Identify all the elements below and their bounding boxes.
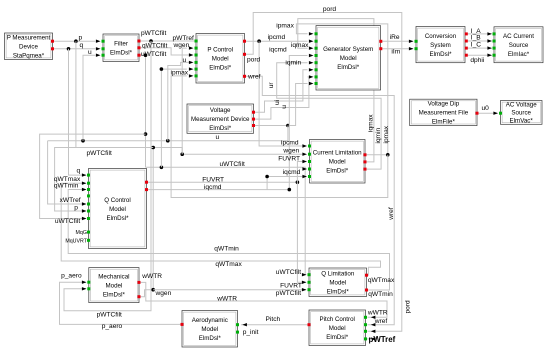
wire iqmax xyxy=(298,19,374,162)
svg-text:Model: Model xyxy=(329,159,346,166)
svg-text:System: System xyxy=(430,42,451,49)
svg-text:ElmDsl*: ElmDsl* xyxy=(326,334,349,341)
wire iqcmd xyxy=(147,56,308,192)
wire FUVRT down to Q Limitation xyxy=(297,182,306,282)
svg-text:pord: pord xyxy=(404,300,411,314)
pin Filter qWTCfilt out xyxy=(138,46,141,49)
svg-text:iqmin: iqmin xyxy=(375,127,382,143)
arrow into Q Limitation pWTCfilt xyxy=(302,288,307,291)
svg-text:qWTmin: qWTmin xyxy=(54,182,79,189)
svg-text:MqUVRT: MqUVRT xyxy=(65,238,87,244)
pin P Control in1 xyxy=(195,40,198,43)
svg-text:pWTCfilt: pWTCfilt xyxy=(276,290,301,297)
wire pWTref stub xyxy=(366,338,378,340)
svg-text:qWTmin: qWTmin xyxy=(214,245,239,252)
svg-text:Mechanical: Mechanical xyxy=(98,273,129,280)
arrow into Conversion iRe xyxy=(409,40,414,43)
pin Generator iRe out xyxy=(379,40,382,43)
pin Q Limitation qWTmin out xyxy=(365,289,368,292)
pin AC Voltage u0 in xyxy=(499,112,502,115)
pin P Control in3 xyxy=(195,54,198,57)
pin Mechanical pWTCfilt in xyxy=(87,287,90,290)
arrow into Generator ui xyxy=(309,75,314,78)
pin Conversion out4 xyxy=(465,54,468,57)
pin Current Limitation iqmax out xyxy=(364,168,367,171)
Filter ElmDsl xyxy=(103,34,139,62)
svg-text:ElmDsl*: ElmDsl* xyxy=(326,168,349,175)
svg-text:Source: Source xyxy=(511,110,531,117)
svg-text:qWTCfilt: qWTCfilt xyxy=(142,42,167,49)
pin Pitch Control Pitch out xyxy=(308,323,311,326)
arrow into P Control qWTCfilt xyxy=(189,53,194,56)
svg-text:ipmax: ipmax xyxy=(276,22,294,29)
wire Pitch xyxy=(241,324,309,326)
Aerodynamic Model ElmDsl xyxy=(182,311,238,348)
svg-text:uWTCfilt: uWTCfilt xyxy=(276,269,301,276)
arrow into Conversion iIm xyxy=(409,47,414,50)
arrow into Current Limitation ipcmd xyxy=(302,144,307,147)
wire iRe xyxy=(381,40,413,42)
svg-text:wref: wref xyxy=(388,207,395,221)
svg-text:ElmDsl*: ElmDsl* xyxy=(103,291,126,298)
arrow into Q Limitation FUVRT xyxy=(302,281,307,284)
arrow into Filter p xyxy=(96,40,101,43)
wire I_C xyxy=(466,47,491,49)
svg-text:Voltage Dip: Voltage Dip xyxy=(428,101,460,108)
Pitch Control Model ElmDsl xyxy=(309,310,366,346)
arrow into Q Control uWTCfilt xyxy=(82,217,87,220)
pin Aerodynamic Pitch in xyxy=(236,323,239,326)
svg-text:uWTCfilt: uWTCfilt xyxy=(141,51,166,58)
svg-text:wgen: wgen xyxy=(173,42,190,49)
pin Pitch Control in4 xyxy=(364,337,367,340)
svg-text:Measurement Device: Measurement Device xyxy=(191,116,250,123)
arrow into AC Current I_B xyxy=(487,39,492,42)
svg-text:ElmDsl*: ElmDsl* xyxy=(106,215,129,222)
svg-text:p_init: p_init xyxy=(243,329,259,336)
pin Q Limitation in2 xyxy=(308,281,311,284)
arrow into Generator ipmax xyxy=(309,32,314,35)
P Control Model ElmDsl xyxy=(196,34,245,84)
AC Voltage Source ElmVac xyxy=(501,101,543,125)
svg-text:ui: ui xyxy=(274,99,281,105)
pin AC Current in4 xyxy=(493,54,496,57)
Conversion System ElmDsl xyxy=(416,27,465,63)
svg-text:pord: pord xyxy=(323,6,337,13)
pin Generator in6 xyxy=(315,68,318,71)
Generator System Model ElmDsl xyxy=(316,26,381,90)
wire qWTCfilt drop xyxy=(139,48,191,55)
pin P Control in5 xyxy=(195,68,198,71)
svg-text:Model: Model xyxy=(201,326,218,333)
arrow into P Control uWTCfilt xyxy=(189,67,194,70)
svg-text:iqcmd: iqcmd xyxy=(269,46,287,53)
pin Generator iIm out xyxy=(379,47,382,50)
svg-text:ElmDsl*: ElmDsl* xyxy=(209,125,232,132)
svg-text:Model: Model xyxy=(329,325,346,332)
pin Conversion out2 xyxy=(465,40,468,43)
wire wWTR xyxy=(139,282,387,317)
svg-text:iqmax: iqmax xyxy=(291,42,309,49)
pin Filter u in xyxy=(102,54,105,57)
arrow into Mechanical p_aero xyxy=(82,281,87,284)
svg-text:uWTCfilt: uWTCfilt xyxy=(55,218,80,225)
pin P Control in4 xyxy=(195,61,198,64)
svg-text:Model: Model xyxy=(109,206,126,213)
svg-text:ipmax: ipmax xyxy=(383,125,390,143)
svg-text:Model: Model xyxy=(340,55,357,62)
arrow into Q Control qWTmin xyxy=(82,188,87,191)
svg-text:uWTCfilt: uWTCfilt xyxy=(220,161,245,168)
svg-text:Model: Model xyxy=(212,56,229,63)
Current Limitation Model ElmDsl xyxy=(310,140,366,184)
svg-text:p: p xyxy=(74,205,78,212)
pin Current Limitation in5 xyxy=(308,175,311,178)
pin Mechanical p_aero in xyxy=(87,281,90,284)
svg-text:wgen: wgen xyxy=(155,290,172,297)
arrow into AC Voltage u0 xyxy=(493,112,498,115)
pin Mechanical wWTR out xyxy=(138,281,141,284)
pin Q Limitation qWTmax out xyxy=(365,274,368,277)
arrow into Generator ur xyxy=(309,68,314,71)
wire wgen from Mechanical xyxy=(139,146,303,297)
svg-text:Model: Model xyxy=(329,280,346,287)
pin P Control wref out xyxy=(243,75,246,78)
svg-text:p_aero: p_aero xyxy=(61,273,82,280)
arrow into Generator iqmin xyxy=(309,61,314,64)
arrow into Generator iqcmd xyxy=(309,54,314,57)
wire qWTmax xyxy=(61,183,380,275)
AC Current Source ElmIac xyxy=(494,27,543,63)
wire wref xyxy=(245,76,395,324)
pin Pitch Control in3 xyxy=(364,330,367,333)
svg-text:qWTmin: qWTmin xyxy=(368,291,393,298)
arrow into Filter u xyxy=(96,54,101,57)
svg-text:xWTref: xWTref xyxy=(60,197,81,204)
svg-text:Device: Device xyxy=(19,44,38,51)
wire pWTCfilt down to Mechanical xyxy=(64,41,151,311)
pin Filter uWTCfilt out xyxy=(138,54,141,57)
pin Q Limitation in3 xyxy=(308,288,311,291)
svg-text:FUVRT: FUVRT xyxy=(202,176,224,183)
wire wgen riser to P Control xyxy=(182,48,187,154)
wire uWTCfilt riser to P Control xyxy=(160,67,187,167)
svg-text:ElmDsl*: ElmDsl* xyxy=(199,335,222,342)
svg-text:q: q xyxy=(80,42,84,49)
arrow into Current Limitation FUVRT xyxy=(302,160,307,163)
pin Conversion out1 xyxy=(465,32,468,35)
pin Generator in3 xyxy=(315,47,318,50)
wire pWTCfilt to P Control xyxy=(139,39,196,43)
pin Aerodynamic p_init in xyxy=(236,331,239,334)
Voltage Dip Measurement File ElmFile xyxy=(410,99,477,126)
svg-text:FUVRT: FUVRT xyxy=(280,283,302,290)
svg-text:iqcmd: iqcmd xyxy=(283,169,301,176)
arrow into P Control ipmax xyxy=(189,74,194,77)
svg-text:qWTmax: qWTmax xyxy=(215,261,242,268)
svg-text:ElmDsl*: ElmDsl* xyxy=(209,65,232,72)
pin Pitch Control in2 xyxy=(364,323,367,326)
pin Voltage Measurement ur out xyxy=(252,111,255,114)
wire I_A xyxy=(466,33,491,35)
arrow into Current Limitation iqcmd xyxy=(302,175,307,178)
svg-text:FUVRT: FUVRT xyxy=(278,155,300,162)
svg-text:wWTR: wWTR xyxy=(216,295,237,302)
svg-text:Voltage: Voltage xyxy=(210,107,231,114)
svg-text:ElmDsl*: ElmDsl* xyxy=(337,64,360,71)
svg-text:Measurement File: Measurement File xyxy=(419,110,469,117)
arrow into Pitch Control pWTref xyxy=(371,337,376,340)
wire net q branch down to Q Control xyxy=(69,49,87,175)
svg-text:wgen: wgen xyxy=(282,147,299,154)
svg-text:ElmVac*: ElmVac* xyxy=(510,118,534,125)
pin Current Limitation in2 xyxy=(308,153,311,156)
arrow into Current Limitation wgen xyxy=(302,153,307,156)
svg-text:Conversion: Conversion xyxy=(425,33,457,40)
pin Current Limitation in4 xyxy=(308,168,311,171)
pin P Measurement p out xyxy=(51,40,54,43)
Q Limitation Model ElmDsl xyxy=(309,268,367,297)
pin Current Limitation ipmax out xyxy=(364,153,367,156)
wire net u from Voltage Measurement xyxy=(254,84,308,128)
svg-text:pord: pord xyxy=(247,57,261,64)
Q Control Model ElmDsl xyxy=(89,169,147,249)
wire pord xyxy=(245,13,402,332)
svg-text:u: u xyxy=(216,134,220,141)
svg-text:Source: Source xyxy=(509,42,529,49)
arrow into Generator ipcmd xyxy=(309,40,314,43)
svg-text:Q Control: Q Control xyxy=(104,197,130,204)
pin Q Control in9 xyxy=(87,239,90,242)
pin Conversion out3 xyxy=(465,47,468,50)
arrow into Q Control qWTmax xyxy=(82,182,87,185)
wire xWTref from u xyxy=(48,141,86,204)
svg-text:wWTR: wWTR xyxy=(141,273,162,280)
wire uWTCfilt horizontal xyxy=(146,166,307,275)
wire ur xyxy=(254,70,308,112)
pin Generator in7 xyxy=(315,75,318,78)
arrow into Pitch Control pord xyxy=(371,330,376,333)
svg-text:Pitch Control: Pitch Control xyxy=(319,316,354,323)
svg-text:wWTR: wWTR xyxy=(367,309,388,316)
svg-text:iIm: iIm xyxy=(391,49,400,56)
svg-text:Generator System: Generator System xyxy=(323,46,373,53)
svg-text:AC Voltage: AC Voltage xyxy=(506,102,538,109)
wire ipmax top route xyxy=(296,24,389,157)
svg-text:P Control: P Control xyxy=(207,47,233,54)
arrow into AC Current I_C xyxy=(487,46,492,49)
wire net u horizontal xyxy=(48,126,288,143)
pin Voltage Measurement u out xyxy=(252,124,255,127)
arrow into Filter q xyxy=(96,47,101,50)
pin AC Current in3 xyxy=(493,47,496,50)
wire iIm xyxy=(381,48,413,50)
svg-text:ipmax: ipmax xyxy=(171,70,189,77)
pin Conversion iRe in xyxy=(415,40,418,43)
Mechanical Model ElmDsl xyxy=(89,268,139,303)
pin Filter pWTCfilt out xyxy=(138,40,141,43)
wire iqcmd branch to Current Limitation xyxy=(265,175,302,190)
pin Mechanical wgen out xyxy=(138,295,141,298)
pin Generator in4 xyxy=(315,54,318,57)
svg-text:iqcmd: iqcmd xyxy=(204,184,222,191)
pin Q Control in8 xyxy=(87,231,90,234)
svg-text:p: p xyxy=(79,34,83,41)
pin Q Control in2 xyxy=(87,182,90,185)
pin AC Current in2 xyxy=(493,40,496,43)
arrow into Generator u xyxy=(309,82,314,85)
wire qWTmin xyxy=(68,190,389,291)
svg-text:ipcmd: ipcmd xyxy=(281,140,299,147)
svg-text:u: u xyxy=(88,49,92,56)
arrow into P Control u xyxy=(189,61,194,64)
wire u0 xyxy=(477,112,498,114)
svg-text:iqmax: iqmax xyxy=(367,114,374,132)
wire net p branch down to Q Control xyxy=(55,41,86,211)
svg-text:iqmin: iqmin xyxy=(285,60,301,67)
svg-text:MqG: MqG xyxy=(76,230,87,236)
pin Q Control in6 xyxy=(87,210,90,213)
pin Generator in1 xyxy=(315,32,318,35)
svg-text:Filter: Filter xyxy=(114,41,128,48)
svg-text:Pitch: Pitch xyxy=(266,316,281,323)
svg-text:p_aero: p_aero xyxy=(102,323,123,330)
arrow into Pitch Control wref xyxy=(371,323,376,326)
wire p_aero xyxy=(60,282,183,324)
Voltage Measurement Device ElmDsl xyxy=(187,104,254,133)
pin Generator in8 xyxy=(315,82,318,85)
pin Current Limitation in1 xyxy=(308,145,311,148)
pin Pitch Control in1 xyxy=(364,316,367,319)
svg-text:pWTCfilt: pWTCfilt xyxy=(87,150,112,157)
svg-text:Current Limitation: Current Limitation xyxy=(313,150,362,157)
wire net q xyxy=(53,47,96,51)
svg-text:I_C: I_C xyxy=(471,42,481,49)
svg-text:u0: u0 xyxy=(482,105,490,112)
svg-text:ur: ur xyxy=(268,82,275,89)
arrow into Pitch Control wWTR xyxy=(371,316,376,319)
wire uWTCfilt to Q Control xyxy=(40,134,146,218)
svg-text:q: q xyxy=(77,168,81,175)
pin AC Current in1 xyxy=(493,32,496,35)
svg-text:I_B: I_B xyxy=(471,35,481,42)
svg-text:Q Limitation: Q Limitation xyxy=(321,271,355,278)
wire net p xyxy=(53,39,96,43)
wire ipmax to P Control xyxy=(171,76,388,198)
pin Q Control in3 xyxy=(87,188,90,191)
pin Conversion iIm in xyxy=(415,47,418,50)
pin Q Control in4 xyxy=(87,194,90,197)
pin Q Control iqcmd out xyxy=(145,188,148,191)
arrow into Current Limitation pin4 xyxy=(302,167,307,170)
svg-text:dphii: dphii xyxy=(470,57,484,64)
svg-text:ElmDsl*: ElmDsl* xyxy=(327,289,350,296)
svg-text:pWTCfilt: pWTCfilt xyxy=(97,312,122,319)
pin Voltage Dip u0 out xyxy=(476,112,479,115)
pin P Control in2 xyxy=(195,47,198,50)
svg-text:ElmDsl*: ElmDsl* xyxy=(110,50,133,57)
pin Q Limitation in1 xyxy=(308,273,311,276)
pin Current Limitation in3 xyxy=(308,160,311,163)
pin P Measurement q out xyxy=(51,47,54,50)
P Measurement Device StaPqmea xyxy=(5,33,53,60)
pin Filter p in xyxy=(102,40,105,43)
svg-text:u: u xyxy=(183,57,187,64)
wire uWTCfilt out of Filter xyxy=(139,53,147,167)
svg-text:ipcmd: ipcmd xyxy=(268,34,286,41)
pin Generator in2 xyxy=(315,40,318,43)
arrow into Q Control xWTref xyxy=(82,202,87,205)
arrow into AC Current dphii xyxy=(487,54,492,57)
svg-text:iRe: iRe xyxy=(390,34,400,41)
svg-text:Aerodynamic: Aerodynamic xyxy=(192,317,228,324)
svg-text:ElmDsl*: ElmDsl* xyxy=(429,51,452,58)
wire ipcmd branch to Current Limitation xyxy=(259,41,302,146)
arrow into Aerodynamic Pitch xyxy=(242,323,247,326)
pin Q Control FUVRT out xyxy=(145,181,148,184)
arrow into Mechanical pWTCfilt xyxy=(82,287,87,290)
wire dphii xyxy=(466,54,491,56)
arrow into Q Limitation uWTCfilt xyxy=(302,273,307,276)
wire FUVRT xyxy=(147,180,300,184)
wire iqmin xyxy=(277,63,381,169)
svg-text:wref: wref xyxy=(374,318,388,325)
wire net u riser to P Control xyxy=(168,62,191,140)
svg-text:u: u xyxy=(281,105,288,109)
arrow into AC Current I_A xyxy=(487,32,492,35)
svg-text:qWTmax: qWTmax xyxy=(368,277,395,284)
wire FUVRT up to Current Limitation xyxy=(297,162,302,183)
arrow into Q Control p xyxy=(82,209,87,212)
svg-text:wref: wref xyxy=(247,74,261,81)
pin P Control ipcmd out xyxy=(243,40,246,43)
svg-text:StaPqmea*: StaPqmea* xyxy=(13,53,45,60)
pin Q Control in1 xyxy=(87,174,90,177)
wire ui xyxy=(254,77,309,119)
pin P Control pord out xyxy=(243,53,246,56)
pin Current Limitation iqmin out xyxy=(364,160,367,163)
pin Q Control in7 xyxy=(87,217,90,220)
wire wgen branch to Q Limitation pWTCfilt xyxy=(153,289,306,291)
pin P Control in6 xyxy=(195,74,198,77)
svg-text:Model: Model xyxy=(105,282,122,289)
wire I_B xyxy=(466,40,491,42)
svg-text:pWTref: pWTref xyxy=(173,35,195,42)
pin Filter q in xyxy=(102,47,105,50)
svg-text:P Measurement: P Measurement xyxy=(7,35,51,42)
arrow into Q Control q xyxy=(82,173,87,176)
arrow into Generator iqmax xyxy=(309,47,314,50)
wire ipcmd xyxy=(245,39,308,43)
pin Voltage Measurement ui out xyxy=(252,118,255,121)
wire wgen left segment xyxy=(76,147,153,149)
arrow into P Control wgen xyxy=(189,46,194,49)
svg-text:ElmIac*: ElmIac* xyxy=(508,51,530,58)
svg-text:AC Current: AC Current xyxy=(503,33,534,40)
pin Aerodynamic p_aero out xyxy=(181,323,184,326)
pin Generator in5 xyxy=(315,61,318,64)
svg-text:pWTCfilt: pWTCfilt xyxy=(141,30,166,37)
wire net u branch to Filter xyxy=(83,55,96,141)
svg-text:pWTref: pWTref xyxy=(369,335,396,344)
svg-text:ElmFile*: ElmFile* xyxy=(432,119,456,126)
pin Q Control in5 xyxy=(87,203,90,206)
